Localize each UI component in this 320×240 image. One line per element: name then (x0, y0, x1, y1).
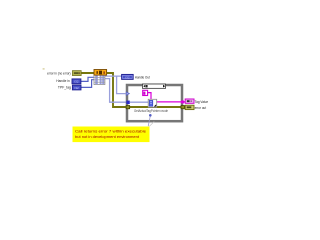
svg-text:Call returns error 7 within ex: Call returns error 7 within executable (75, 129, 147, 134)
svg-text:Handle in: Handle in (56, 79, 70, 83)
terminal: error in icon (72, 71, 81, 76)
tunnel: olive tunnel left wall (126, 106, 130, 109)
svg-text:I32: I32 (125, 75, 130, 79)
structure: selector label (142, 84, 165, 88)
structure: case structure border (127, 85, 182, 121)
wire: TPF_tag to bundle (81, 80, 95, 88)
indicator: Tag Value icon (185, 99, 194, 103)
svg-text:GetActualTagPointer.vnode: GetActualTagPointer.vnode (134, 109, 168, 113)
wire: branch down to structure wall arrow (117, 76, 126, 94)
wire: magenta output to Tag Value (157, 101, 186, 103)
node: bundle grid body (94, 75, 105, 85)
stray mark top-left of label (43, 68, 45, 69)
callout: line from note to node (148, 116, 150, 126)
wire: magenta constant to node top (148, 93, 151, 100)
svg-text:error out: error out (195, 106, 207, 110)
wire: Handle in to bundle (81, 77, 95, 81)
svg-text:Tag Value: Tag Value (195, 100, 209, 104)
callout: faint corner diagonal (149, 122, 154, 127)
node: GetActualTagPointer vnode (148, 99, 157, 107)
wire: bundle output to Handle Out (lavender) (105, 75, 122, 77)
wire: bundle second output down into structure tunnel (105, 79, 127, 103)
terminal: Handle in icon (72, 79, 81, 84)
svg-text:but not in development environ: but not in development environment (75, 134, 140, 139)
tunnel: magenta output tunnel right wall (181, 100, 184, 103)
svg-text:I32: I32 (75, 86, 80, 90)
svg-text:Handle Out: Handle Out (135, 75, 151, 79)
terminal: TPF_tag icon (72, 85, 81, 90)
tunnel: olive tunnel right wall (181, 106, 185, 109)
svg-text:error in (no error): error in (no error) (47, 72, 71, 76)
wire: error wire (olive) from error in through bundle, down and through structure (81, 73, 185, 107)
wire: lavender inside structure to node (130, 101, 149, 103)
indicator: error out icon (185, 105, 194, 109)
indicator: Handle Out icon (122, 74, 134, 79)
constant: magenta class constant (143, 90, 148, 95)
tunnel: blue input tunnel left wall (126, 101, 129, 104)
svg-text:I32: I32 (74, 80, 79, 84)
tunnel: wall arrow (unwired) on left wall (126, 92, 129, 95)
svg-text:TPF_tag: TPF_tag (58, 85, 71, 89)
node: bundle orange header (94, 70, 107, 76)
comment: yellow sticky note (73, 127, 150, 143)
